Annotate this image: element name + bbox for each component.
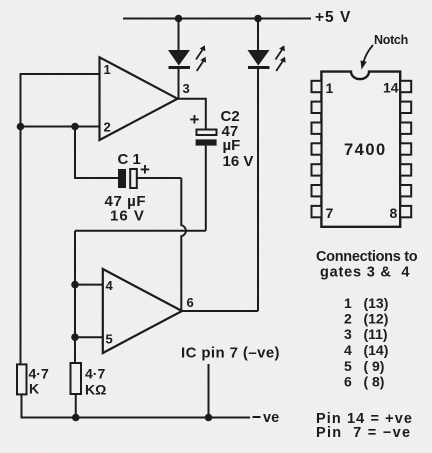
- svg-text:7: 7: [326, 205, 334, 221]
- svg-text:ve: ve: [263, 410, 279, 426]
- svg-text:2 (12): 2 (12): [344, 311, 388, 327]
- IC pin stubs right: [400, 81, 411, 217]
- svg-text:16 V: 16 V: [223, 153, 254, 170]
- node junction IC pin7 / -ve rail: [205, 414, 213, 422]
- wire pin5 input: [75, 336, 103, 338]
- svg-text:gates 3 & 4: gates 3 & 4: [320, 265, 410, 281]
- wire -ve rail: [21, 417, 251, 419]
- svg-text:Notch: Notch: [374, 33, 408, 47]
- wire C1 branch from pin2 junction: [75, 127, 118, 179]
- capacitor C2: [196, 130, 217, 146]
- wire pin2 input: [20, 126, 100, 128]
- wire R1 bottom: [21, 394, 23, 417]
- svg-text:3: 3: [183, 81, 190, 96]
- wire feedback vertical with hop over horizontal: [181, 178, 186, 311]
- svg-text:4 (14): 4 (14): [344, 342, 388, 358]
- svg-text:16 V: 16 V: [110, 208, 145, 225]
- svg-text:3 (11): 3 (11): [344, 326, 388, 342]
- wire gate2 output: [181, 310, 259, 312]
- label -ve: [253, 410, 280, 426]
- wire pin4 input: [75, 284, 103, 286]
- svg-text:6: 6: [187, 295, 194, 310]
- svg-text:1: 1: [104, 62, 111, 77]
- wire LED1 cathode to gate1 output: [178, 69, 180, 100]
- svg-text:+: +: [190, 110, 200, 129]
- IC pin stubs left: [312, 81, 322, 217]
- svg-text:+: +: [140, 160, 150, 179]
- gate U1b (pins 4,5,6): [103, 269, 182, 353]
- wire C1 to feedback vertical: [137, 177, 182, 179]
- wire +5V rail: [123, 18, 311, 20]
- node junction LED2 on +5V rail: [254, 15, 262, 23]
- svg-text:4: 4: [106, 278, 114, 293]
- wire C2 bottom lead: [205, 146, 207, 231]
- LED D1: [168, 45, 206, 71]
- node junction pin2 / left line: [17, 123, 25, 131]
- resistor R1: [17, 364, 27, 394]
- IC U1 7400 body: [321, 72, 400, 227]
- node junction LED1 on +5V rail: [175, 15, 183, 23]
- svg-text:1 (13): 1 (13): [344, 295, 388, 311]
- wire LED2 anode: [257, 19, 259, 51]
- node junction pin4: [71, 281, 79, 289]
- wire R2 bottom: [75, 394, 77, 418]
- wire IC pin7 stub: [208, 364, 210, 418]
- wire LED1 anode: [178, 19, 180, 51]
- svg-text:8: 8: [390, 205, 398, 221]
- arrow to notch: [361, 45, 374, 70]
- wire left vertical (pins 1,2 to R1): [20, 74, 22, 395]
- svg-text:4·7: 4·7: [29, 366, 49, 382]
- svg-text:C 1: C 1: [118, 151, 141, 168]
- svg-text:KΩ: KΩ: [85, 382, 106, 398]
- svg-text:1: 1: [326, 80, 334, 96]
- svg-text:+5 V: +5 V: [315, 9, 351, 26]
- node junction pin5: [71, 333, 79, 341]
- svg-text:Pin 7 = −ve: Pin 7 = −ve: [316, 425, 411, 441]
- svg-text:14: 14: [383, 80, 399, 96]
- svg-text:K: K: [29, 381, 39, 397]
- svg-text:Connections to: Connections to: [316, 249, 418, 265]
- LED D2: [248, 45, 286, 71]
- svg-text:IC pin 7 (–ve): IC pin 7 (–ve): [181, 345, 280, 362]
- wire gate1 output to C2: [176, 99, 206, 131]
- svg-text:2: 2: [104, 120, 111, 135]
- svg-text:6 ( 8): 6 ( 8): [344, 374, 384, 390]
- wire pin1 input: [20, 73, 100, 75]
- capacitor C1: [118, 169, 137, 188]
- wire LED2 cathode to gate2 output: [257, 69, 259, 312]
- resistor R2: [71, 363, 82, 394]
- node junction R2 / -ve rail: [72, 414, 80, 422]
- svg-text:µF: µF: [223, 137, 241, 154]
- wire C2 to gate2 inputs (horizontal): [75, 230, 206, 232]
- svg-text:5: 5: [106, 332, 113, 347]
- gate U1a (pins 1,2,3): [100, 57, 178, 140]
- svg-text:7400: 7400: [344, 141, 387, 159]
- node junction pin2 / C1 branch: [71, 123, 79, 131]
- wire gate2 input vertical (x=75): [74, 231, 76, 364]
- svg-text:5 ( 9): 5 ( 9): [344, 358, 384, 374]
- svg-text:4·7: 4·7: [85, 366, 105, 382]
